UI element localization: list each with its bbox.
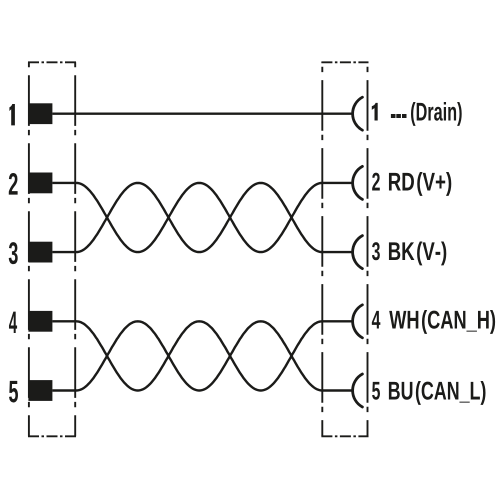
left connector body: left edge (dash-dot) [28, 62, 30, 436]
right connector body: top edge (dash-dot) [321, 61, 368, 63]
right connector body: bottom edge (dash-dot) [321, 435, 368, 437]
right connector body: right edge (dash-dot) [367, 62, 369, 436]
pin 2 contact square (left connector) [28, 173, 52, 194]
left connector body: right edge (dash-dot) [74, 62, 76, 436]
pin 5 wire label: 5 BU (CAN_L) [372, 382, 380, 400]
wire 2 RD (twisted pair) [52, 183, 353, 252]
pin 1 contact square (left connector) [28, 103, 52, 124]
pin 5 number label (left) [9, 381, 18, 403]
pin 2 socket arc (right connector) [353, 166, 363, 199]
right connector body: left edge (dash-dot) [321, 62, 323, 436]
pin 2 wire label: 2 RD (V+) [372, 173, 380, 191]
pin 3 wire label: 3 BK (V-) [372, 242, 380, 260]
pin 3 contact square (left connector) [28, 242, 52, 263]
pin 4 socket arc (right connector) [353, 305, 363, 338]
pin 1 number label (left) [9, 104, 15, 125]
left connector body: top edge (dash-dot) [28, 61, 76, 63]
pin 3 socket arc (right connector) [353, 236, 363, 269]
wire 3 BK (twisted pair) [52, 183, 353, 252]
wire 4 WH (twisted pair) [52, 321, 353, 390]
wire 5 BU (twisted pair) [52, 321, 353, 390]
pin 1 wire label: 1 --- (Drain) [372, 103, 378, 121]
pin 5 contact square (left connector) [28, 380, 52, 401]
pin 1 socket arc (right connector) [353, 97, 363, 130]
pin 4 contact square (left connector) [28, 311, 52, 332]
wire 1 drain (straight) [52, 112, 353, 114]
pin 5 socket arc (right connector) [353, 374, 363, 407]
left connector body: bottom edge (dash-dot) [28, 435, 76, 437]
pin 4 wire label: 4 WH (CAN_H) [372, 311, 381, 329]
pin 4 number label (left) [9, 312, 17, 333]
pin 2 number label (left) [9, 173, 18, 195]
pin 3 number label (left) [9, 242, 18, 264]
